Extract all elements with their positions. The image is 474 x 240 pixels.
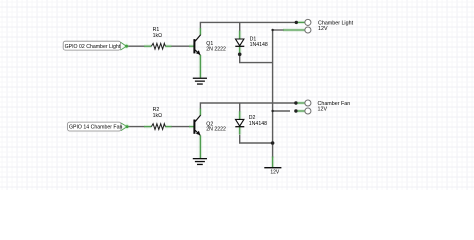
svg-text:1kΩ: 1kΩ [153, 33, 162, 39]
svg-text:GPIO 14 Chamber Fan: GPIO 14 Chamber Fan [69, 125, 122, 131]
svg-text:GPIO 02 Chamber Light: GPIO 02 Chamber Light [65, 44, 121, 50]
svg-text:2N 2222: 2N 2222 [206, 46, 226, 52]
svg-text:1N4148: 1N4148 [249, 121, 267, 127]
svg-text:2N 2222: 2N 2222 [206, 127, 226, 133]
svg-text:12V: 12V [270, 169, 280, 175]
svg-text:12V: 12V [318, 26, 328, 32]
svg-text:1N4148: 1N4148 [250, 42, 268, 48]
svg-text:12V: 12V [318, 106, 328, 112]
svg-text:1kΩ: 1kΩ [153, 113, 162, 119]
